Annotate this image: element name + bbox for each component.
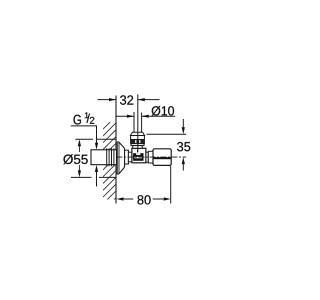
inlet thread lines bbox=[107, 148, 114, 166]
horizontal centerline bbox=[117, 156, 187, 158]
outlet nut bbox=[153, 149, 171, 166]
valve body bbox=[132, 148, 146, 163]
text 80 bbox=[138, 195, 151, 204]
text G bbox=[74, 115, 81, 125]
text / bbox=[87, 114, 90, 123]
knurl band bbox=[131, 140, 145, 144]
wall hatching bbox=[103, 116, 116, 224]
rosette step bbox=[125, 150, 129, 164]
rosette bell bbox=[117, 142, 124, 174]
body slot detail bbox=[133, 153, 143, 161]
nut groove band bbox=[153, 157, 171, 159]
olive trapezoid bbox=[130, 132, 144, 135]
text 2 bbox=[90, 117, 95, 124]
wall face line bbox=[115, 96, 117, 204]
outlet step B bbox=[148, 151, 153, 163]
band1 bbox=[131, 136, 145, 140]
band2 bbox=[131, 144, 144, 146]
body screw tick bbox=[137, 150, 139, 153]
text 1 bbox=[85, 112, 89, 118]
outlet step A bbox=[146, 152, 148, 162]
text 35 bbox=[177, 142, 190, 151]
text O55 bbox=[63, 154, 87, 164]
text O10 bbox=[152, 106, 174, 116]
riser pipe bbox=[133, 112, 135, 132]
inlet pipe G1/2 tail bbox=[91, 150, 117, 165]
text 32 bbox=[120, 95, 133, 104]
riser centerline bbox=[137, 94, 139, 152]
neck2 bbox=[133, 146, 142, 149]
neck to body bbox=[128, 152, 132, 162]
